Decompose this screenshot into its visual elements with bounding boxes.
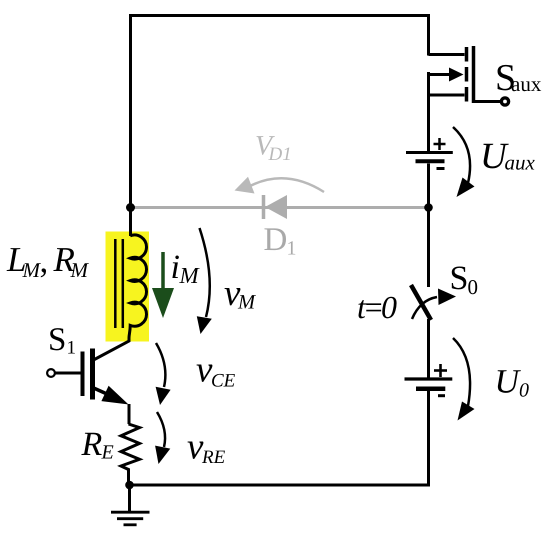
svg-text:t=0: t=0 [357, 289, 397, 325]
svg-text:R: R [81, 426, 103, 463]
svg-text:RE: RE [201, 447, 226, 468]
svg-text:CE: CE [211, 371, 236, 392]
svg-text:,: , [40, 241, 49, 280]
svg-text:U: U [495, 364, 522, 401]
svg-text:M: M [22, 258, 42, 282]
svg-text:S: S [48, 322, 66, 358]
svg-text:S: S [450, 260, 469, 297]
svg-text:E: E [101, 442, 114, 464]
svg-text:aux: aux [511, 72, 542, 96]
svg-text:aux: aux [505, 151, 536, 175]
svg-text:0: 0 [468, 275, 479, 299]
svg-text:1: 1 [67, 338, 77, 359]
svg-text:M: M [237, 292, 257, 314]
svg-text:M: M [70, 258, 90, 282]
svg-text:D: D [264, 222, 288, 258]
svg-text:1: 1 [287, 238, 297, 260]
svg-text:M: M [179, 263, 201, 288]
svg-text:D1: D1 [268, 144, 292, 165]
svg-text:0: 0 [519, 380, 529, 402]
